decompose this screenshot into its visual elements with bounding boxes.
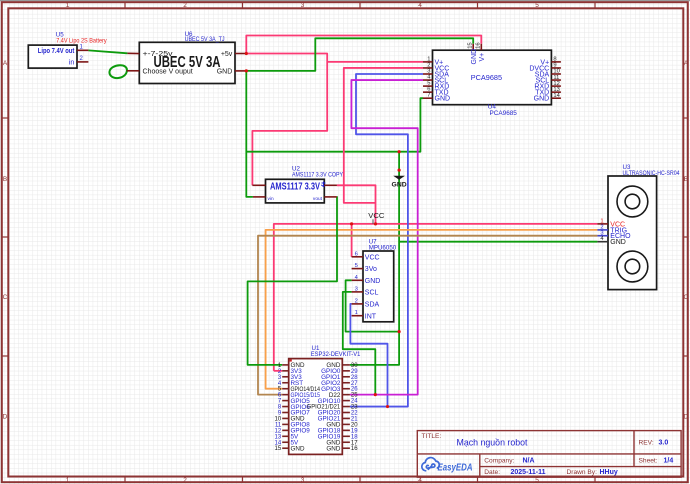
wire VCC net: branch down to MPU6050 VCC — [351, 224, 353, 257]
ESP32 pin 12 GPIO9 (left) — [275, 428, 311, 435]
MPU6050 pin 1 INT — [352, 310, 377, 320]
svg-text:GND: GND — [435, 96, 451, 103]
svg-text:16: 16 — [351, 446, 358, 452]
junction dot 9 — [386, 405, 389, 408]
svg-text:HHuy: HHuy — [600, 469, 618, 476]
svg-text:GND: GND — [291, 445, 305, 452]
ESP32 pin 19 GPIO18 (right) — [318, 428, 359, 435]
svg-text:GND: GND — [217, 69, 233, 76]
regulator U2 AMS1117 3.3V — [252, 165, 343, 203]
wire SCL net: PCA9685 pin 4 down to ESP32 pin 25 — [350, 80, 423, 395]
PCA9685 pin 5 RXD — [423, 81, 449, 91]
PCA9685 pin 13 TXD — [535, 87, 561, 97]
junction dot 1 — [245, 52, 248, 55]
svg-text:REV:: REV: — [639, 440, 654, 447]
ESP32 pin 29 GPIO0 (right) — [321, 368, 358, 375]
svg-text:N/A: N/A — [523, 458, 535, 465]
svg-text:+5v: +5v — [221, 51, 233, 58]
svg-text:2: 2 — [183, 2, 187, 9]
wire: battery out to UBEC input — [88, 50, 127, 53]
svg-text:INT: INT — [365, 313, 377, 320]
PCA9685 pin 6 TXD — [423, 87, 449, 97]
junction dot 3 — [398, 150, 401, 153]
svg-text:vin: vin — [268, 196, 274, 202]
wire SCL net: MPU6050 SCL branch (green) — [343, 292, 376, 395]
svg-text:GND: GND — [534, 96, 550, 103]
title block — [417, 431, 681, 478]
ESP32 pin 8 GPIO6 (left) — [278, 404, 310, 411]
PCA9685 pin 2 VCC — [423, 62, 449, 72]
svg-text:3: 3 — [301, 477, 305, 484]
svg-text:ULTRASONIC-HC-SR04: ULTRASONIC-HC-SR04 — [623, 170, 680, 177]
wire net: AMS1117 lower output pin to ESP32 pin 1 GND — [248, 197, 337, 365]
ESP32 pin 3 3V3 (left) — [278, 374, 302, 381]
svg-text:3: 3 — [355, 286, 358, 292]
PCA9685 pin 7 GND — [423, 93, 450, 103]
svg-text:3: 3 — [301, 2, 305, 9]
ESP32 pin 2 3V3 (left) — [278, 368, 302, 375]
ESP32 pin 6 GPIO15/D15 (left) — [278, 392, 321, 399]
ESP32 pin 16 GND (right) — [326, 445, 358, 452]
PCA9685 pin 16 V+ top — [476, 42, 486, 61]
svg-text:1: 1 — [355, 310, 358, 316]
svg-text:Lipo 7.4V out: Lipo 7.4V out — [38, 46, 75, 55]
PCA9685 pin 10 SDA — [535, 69, 561, 79]
svg-text:VCC: VCC — [365, 254, 380, 261]
EasyEDA logo — [422, 458, 473, 474]
ESP32 pin 22 GPIO20 (right) — [318, 410, 359, 417]
svg-text:6: 6 — [355, 251, 358, 257]
battery U5 Lipo 7.4V 2S — [28, 31, 107, 68]
wire VCC net: branch to PCA9685 pin 2 VCC — [344, 68, 423, 203]
svg-text:16: 16 — [476, 42, 482, 48]
wire ECHO net: ultrasonic ECHO to ESP32 GPIO15/D15 — [258, 236, 597, 395]
ultrasonic transducer circle top — [617, 186, 648, 217]
svg-text:GND: GND — [365, 278, 381, 285]
UBEC choose pin — [127, 70, 140, 72]
wire SDA net: MPU6050 SDA branch — [350, 304, 387, 407]
wire GND net: MPU6050 GND branch — [346, 280, 400, 331]
ESP32 pin 15 GND (left) — [275, 445, 305, 452]
PCA9685 pin 3 SDA — [423, 68, 449, 78]
svg-text:GPIO21/D21: GPIO21/D21 — [307, 404, 341, 411]
svg-text:2025-11-11: 2025-11-11 — [511, 469, 546, 476]
svg-text:3Vo: 3Vo — [365, 266, 377, 273]
PCA9685 pin 4 SCL — [423, 74, 448, 84]
junction dot 2 — [245, 69, 248, 72]
wire VCC net: horizontal rail from ESP32 3V3 to ultrasonic VCC — [274, 224, 598, 371]
ultrasonic pin 1 VCC — [597, 219, 625, 229]
svg-text:UBEC 5V 3A_TJ: UBEC 5V 3A_TJ — [185, 36, 225, 43]
AMS1117 pin gnd bottom-left — [253, 196, 266, 198]
junction dot 7 — [398, 330, 401, 333]
AMS1117 pin vout top-right — [324, 184, 337, 186]
ESP32 pin 13 5V (left) — [275, 434, 299, 441]
ESP32 pin 20 GND (right) — [326, 422, 358, 429]
ground symbol on GND rail — [392, 176, 407, 189]
svg-text:V+: V+ — [479, 53, 486, 62]
svg-text:Company:: Company: — [484, 458, 514, 465]
junction dot 4 — [398, 169, 401, 172]
svg-text:B: B — [3, 176, 7, 183]
svg-text:MPU6050: MPU6050 — [369, 245, 397, 252]
AMS1117 pin bottom-right — [324, 196, 337, 198]
ultrasonic pin 3 ECHO — [597, 230, 631, 240]
svg-text:1/4: 1/4 — [664, 458, 674, 465]
svg-text:1: 1 — [66, 477, 70, 484]
svg-text:B: B — [684, 176, 688, 183]
wire GND net: UBEC GND down to GND rail — [246, 71, 253, 197]
UBEC input pin — [127, 52, 139, 54]
wire GND net: vertical rail down to ESP32 pin 30 — [350, 152, 399, 365]
PCA9685 pin 15 GND top — [468, 42, 478, 64]
svg-text:vout: vout — [313, 196, 323, 202]
svg-text:15: 15 — [275, 446, 282, 452]
svg-text:D: D — [684, 414, 689, 421]
wire GND net: horizontal rail to PCA9685 pin 7 — [246, 98, 423, 152]
UBEC +5v pin — [235, 53, 246, 55]
svg-text:D: D — [3, 414, 8, 421]
ESP32 pin 10 GND (left) — [275, 416, 305, 423]
svg-text:AMS1117 3.3V: AMS1117 3.3V — [270, 181, 320, 192]
IMU U7 MPU6050 — [352, 238, 397, 321]
svg-text:PCA9685: PCA9685 — [471, 73, 502, 82]
junction dot 5 — [374, 222, 377, 225]
svg-text:TITLE:: TITLE: — [422, 433, 442, 440]
svg-text:ESP32-DEVKIT-V1: ESP32-DEVKIT-V1 — [311, 351, 361, 358]
PCA9685 pin 11 SCL — [536, 75, 561, 85]
ultrasonic transducer circle bottom — [617, 251, 648, 282]
ultrasonic pin 4 GND — [597, 236, 625, 246]
wire +5V net: UBEC +5v up and over to PCA9685 pin 16 — [246, 36, 481, 54]
ESP32 pin 4 RST (left) — [278, 380, 303, 387]
svg-text:15: 15 — [468, 42, 474, 48]
IC U4 PCA9685 — [423, 42, 561, 116]
ESP32 pin 21 GPIO21 (right) — [318, 416, 359, 423]
PCA9685 pin 14 GND — [534, 93, 561, 103]
PCA9685 pin 8 V+ — [540, 57, 560, 67]
svg-text:3.0: 3.0 — [659, 440, 669, 447]
MPU6050 pin 6 VCC — [352, 251, 380, 261]
MPU6050 pin 3 SCL — [352, 286, 379, 296]
ESP32 pin 28 GPIO1 (right) — [321, 374, 358, 381]
ESP32 pin 1 GND (left) — [278, 362, 305, 369]
wire TRIG net: ultrasonic TRIG to ESP32 GPIO14/D14 — [266, 230, 598, 389]
svg-text:Sheet:: Sheet: — [639, 458, 658, 465]
ESP32 pin 25 D22 (right) — [329, 392, 358, 399]
wire loop scribble at UBEC Choose V ouput pin — [109, 65, 126, 78]
ESP32 pin 17 GND (right) — [326, 439, 358, 446]
MPU6050 pin 5 3Vo — [352, 263, 377, 273]
wire +5V net: branch to PCA9685 pin 1 V+ — [327, 61, 423, 63]
svg-text:A: A — [3, 60, 8, 67]
svg-text:GND: GND — [392, 181, 407, 188]
ESP32 pin 27 GPIO2 (right) — [321, 380, 358, 387]
PCA9685 pin 9 DVCC — [529, 63, 561, 73]
ESP32 pin 11 GPIO8 (left) — [275, 422, 310, 429]
svg-text:2: 2 — [355, 298, 358, 304]
ESP32 pin 24 GPIO10 (right) — [318, 398, 359, 405]
svg-text:5: 5 — [535, 2, 539, 9]
MPU6050 pin 4 GND — [352, 275, 381, 285]
ESP32 pin 26 GPIO3 (right) — [321, 386, 358, 393]
svg-text:7: 7 — [427, 93, 430, 99]
MPU6050 pin 2 SDA — [352, 298, 380, 308]
svg-text:A: A — [684, 60, 689, 67]
svg-text:5: 5 — [355, 263, 358, 269]
ESP32 pin 30 GND (right) — [326, 362, 358, 369]
UBEC GND pin — [235, 70, 246, 72]
ESP32 pin 18 GPIO19 (right) — [318, 434, 359, 441]
ESP32 pin 14 5V (left) — [275, 439, 299, 446]
battery pin 1 — [77, 49, 88, 51]
svg-text:PCA9685: PCA9685 — [490, 110, 518, 117]
battery pin 2 — [77, 61, 88, 63]
svg-text:C: C — [684, 294, 689, 301]
svg-text:GND: GND — [326, 445, 340, 452]
MCU U1 ESP32-DEVKIT-V1 — [275, 345, 361, 455]
svg-text:2: 2 — [183, 477, 187, 484]
ESP32 pin 23 (nc) (right) — [342, 405, 358, 411]
wire VCC net: AMS1117 output down to VCC rail — [337, 185, 376, 224]
svg-text:GND: GND — [471, 49, 478, 65]
svg-text:Date:: Date: — [484, 469, 500, 476]
svg-text:14: 14 — [553, 93, 560, 99]
ESP32 pin 5 GPIO14/D14 (left) — [278, 386, 321, 393]
svg-text:VCC: VCC — [368, 211, 385, 220]
sensor U3 ULTRASONIC-HC-SR04 — [597, 164, 680, 290]
svg-text:SDA: SDA — [365, 302, 380, 309]
svg-text:Drawn By:: Drawn By: — [567, 469, 598, 476]
junction dot 8 — [374, 393, 377, 396]
svg-text:AMS1117 3.3V COPY: AMS1117 3.3V COPY — [292, 172, 343, 179]
svg-text:EasyEDA: EasyEDA — [438, 462, 473, 473]
svg-text:1: 1 — [66, 2, 70, 9]
wire SDA net: PCA9685 pin 3 down to ESP32 pin 23 — [350, 74, 423, 407]
junction dot 6 — [350, 222, 353, 225]
svg-text:in: in — [69, 59, 75, 66]
wire GND net: branch to ultrasonic GND pin — [399, 241, 597, 243]
ESP32 pin 7 GPIO5 (left) — [278, 398, 310, 405]
wire +5V net: UBEC +5v right, down to PCA pin 1 branch and AMS1117 input — [246, 54, 327, 186]
svg-text:4: 4 — [418, 2, 422, 9]
UBEC U6 5V 3A regulator — [127, 31, 247, 84]
ultrasonic pin 2 TRIG — [597, 225, 627, 235]
wire GND net: UBEC GND up and over to PCA9685 pin 15 — [246, 38, 473, 71]
svg-text:SCL: SCL — [365, 290, 379, 297]
svg-text:Choose V ouput: Choose V ouput — [143, 69, 193, 76]
svg-text:GND: GND — [610, 239, 626, 246]
PCA9685 pin 1 V+ — [423, 56, 443, 66]
svg-text:Mạch nguồn robot: Mạch nguồn robot — [457, 438, 528, 449]
ESP32 pin 9 GPIO7 (left) — [278, 410, 310, 417]
svg-text:C: C — [3, 294, 8, 301]
PCA9685 pin 12 RXD — [534, 81, 560, 91]
net label VCC — [368, 211, 385, 224]
AMS1117 pin vin top-left — [252, 184, 265, 186]
